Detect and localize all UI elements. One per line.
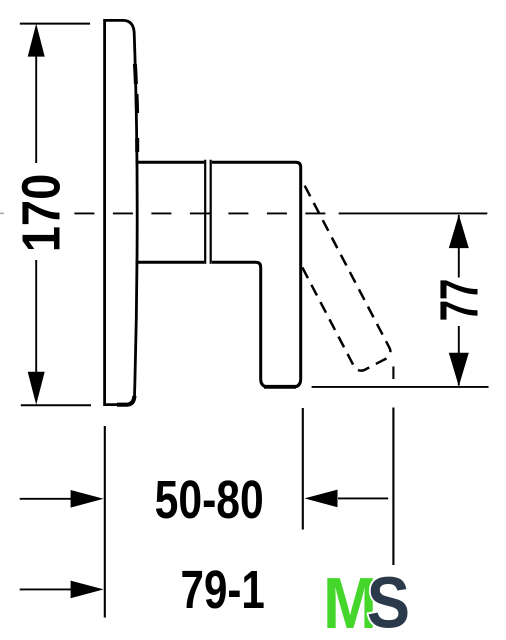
valve body right section + lever handle outline [212, 162, 301, 387]
body seam line left [204, 160, 206, 264]
centerline dashed part [74, 212, 326, 214]
dim 170: arrowhead down [28, 372, 45, 405]
svg-text:77: 77 [430, 279, 490, 322]
dim 50-80: left arrow stem [20, 498, 72, 500]
dim 50-80: right arrow stem [338, 497, 388, 499]
wall plate edge accent upper [135, 64, 136, 84]
svg-text:S: S [367, 563, 410, 640]
valve body left section [136, 162, 205, 262]
lever handle bottom accent [264, 385, 296, 389]
dim 170: top extension line [20, 23, 90, 25]
dim 50-80: left arrowhead [71, 490, 104, 508]
dim 77: arrowhead up [449, 215, 469, 249]
dim 170: arrowhead up [28, 24, 45, 57]
body seam line right [210, 160, 212, 264]
dim 79-1: arrowhead [71, 581, 104, 599]
dim 77: dimension line lower segment [458, 326, 460, 386]
dim 50-80: right arrowhead [305, 490, 338, 508]
dim 170: dimension line lower segment [35, 260, 37, 398]
wall plate (escutcheon, side view) [105, 20, 138, 404]
dim 79-1: arrow stem [20, 588, 72, 590]
dim 50-80: left extension line [104, 426, 106, 618]
dim 77: arrowhead down [449, 353, 469, 387]
wall plate bottom rim accent [117, 396, 134, 405]
dim 77: dimension line upper segment [458, 215, 460, 278]
dim 170: bottom extension line [21, 404, 91, 406]
left edge artifact [0, 212, 4, 214]
svg-text:79-1: 79-1 [181, 560, 265, 620]
handle bottom extension line (77 dim reference) [312, 386, 489, 388]
lever tip extension line upper dash [392, 367, 394, 380]
lever tip extension line [392, 408, 394, 566]
wall plate edge accent mid [135, 94, 140, 113]
dim 170: dimension line upper segment [35, 30, 37, 163]
dashed lever (alternate position) [255, 159, 393, 373]
dim 50-80: right extension line [302, 408, 304, 530]
wall plate edge accent lower [135, 138, 139, 152]
svg-text:50-80: 50-80 [155, 470, 264, 530]
centerline solid extension (77 dim reference) [339, 212, 488, 214]
svg-text:170: 170 [12, 174, 72, 253]
